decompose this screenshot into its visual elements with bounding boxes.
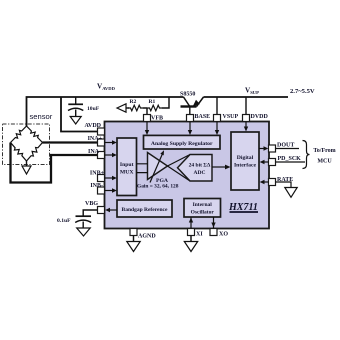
sensor dashed box <box>3 124 50 165</box>
svg-text:INB+: INB+ <box>90 171 105 177</box>
svg-text:BASE: BASE <box>195 114 211 120</box>
svg-text:VSUP: VSUP <box>223 114 239 120</box>
wire VFB network row <box>162 97 169 108</box>
svg-text:2.7~5.5V: 2.7~5.5V <box>290 88 315 95</box>
op-amp PGA <box>148 153 168 180</box>
brace to MCU <box>303 141 310 169</box>
pin INB+ <box>98 175 105 182</box>
wire bridge to INA+ <box>43 141 98 143</box>
svg-text:Bandgap Reference: Bandgap Reference <box>122 207 168 213</box>
pin AVDD <box>98 128 105 135</box>
svg-text:S8550: S8550 <box>180 92 195 98</box>
wire VAVDD rail <box>27 97 184 126</box>
svg-text:10uF: 10uF <box>87 106 100 112</box>
wire VSUP rail <box>204 96 289 98</box>
svg-text:VBG: VBG <box>85 201 98 207</box>
capacitor C1 10uF <box>68 97 83 117</box>
box input MUX <box>117 138 137 196</box>
svg-text:XI: XI <box>196 232 203 238</box>
wire AVDD branch <box>61 97 98 132</box>
svg-text:Input: Input <box>120 162 134 168</box>
svg-text:PD_SCK: PD_SCK <box>278 156 302 162</box>
wire VSUP to DVDD pin <box>245 97 247 115</box>
wire PGA to ADC bowtie <box>168 155 191 182</box>
wire VSUP to VSUP pin <box>216 97 218 115</box>
bridge resistor bottom-left <box>11 143 27 162</box>
svg-text:To/From: To/From <box>313 148 335 154</box>
ADC block 24-bit sigma-delta <box>178 155 213 182</box>
svg-text:sensor: sensor <box>30 112 53 121</box>
svg-text:Interface: Interface <box>234 163 257 169</box>
svg-text:Internal: Internal <box>193 202 213 208</box>
pin INB- <box>98 187 105 194</box>
svg-text:DOUT: DOUT <box>277 143 294 149</box>
pin VFB <box>144 115 151 122</box>
chip body U1 HX711 <box>105 122 270 229</box>
pin RATE <box>269 179 276 186</box>
wire bridge to INA- <box>11 143 98 183</box>
resistor R1 <box>147 105 162 111</box>
svg-text:Digital: Digital <box>237 155 254 161</box>
svg-text:MCU: MCU <box>317 159 332 165</box>
svg-text:Analog Supply Regulator: Analog Supply Regulator <box>151 141 213 147</box>
pin PD_SCK <box>269 159 276 166</box>
svg-text:XO: XO <box>219 232 228 238</box>
pin VSUP <box>214 115 221 122</box>
ground under C1 <box>70 117 81 125</box>
ground under RATE <box>285 188 297 198</box>
bridge resistor right-bottom <box>27 143 43 162</box>
pin INA+ <box>98 139 105 146</box>
ground under bridge <box>22 161 31 174</box>
svg-text:Oscillator: Oscillator <box>191 210 215 216</box>
box digital interface <box>231 132 259 190</box>
ground arrow AGND left <box>126 107 129 109</box>
box internal oscillator <box>184 199 221 218</box>
box analog supply regulator <box>144 135 221 149</box>
pin BASE <box>187 115 194 122</box>
svg-text:INA-: INA- <box>88 149 101 155</box>
bridge resistor top-right <box>27 126 43 143</box>
svg-text:DVDD: DVDD <box>251 114 269 120</box>
wire ADC to digital interface <box>212 166 226 168</box>
bridge resistor left-top <box>11 126 27 143</box>
svg-text:R1: R1 <box>149 99 156 105</box>
svg-text:INA+: INA+ <box>88 136 103 142</box>
svg-text:24 bit ΣΔ: 24 bit ΣΔ <box>189 163 211 169</box>
transistor Q1 S8550 <box>181 97 204 115</box>
wire VBG to C2 <box>83 210 97 216</box>
svg-text:AVDD: AVDD <box>84 123 101 129</box>
resistor R2 <box>128 105 143 111</box>
pin DOUT <box>269 145 276 152</box>
svg-text:Gain = 32, 64, 128: Gain = 32, 64, 128 <box>137 184 179 190</box>
svg-text:AGND: AGND <box>138 234 156 240</box>
svg-text:ADC: ADC <box>194 170 206 176</box>
PGA gain arrow <box>150 153 163 183</box>
wire R2-R1 junction to VFB pin <box>143 108 147 115</box>
pin XO <box>210 229 217 236</box>
wire MUX to PGA <box>137 164 149 173</box>
svg-text:INB-: INB- <box>90 183 103 189</box>
svg-text:0.1uF: 0.1uF <box>57 218 71 224</box>
pin VBG <box>98 207 105 214</box>
svg-text:R2: R2 <box>130 99 137 105</box>
pin DVDD <box>243 115 250 122</box>
svg-text:VFB: VFB <box>151 116 163 122</box>
svg-text:RATE: RATE <box>277 177 293 183</box>
box bandgap reference <box>117 200 172 217</box>
pin XI <box>188 229 195 236</box>
pin INA- <box>98 152 105 159</box>
ground under C2 <box>77 228 91 236</box>
svg-text:MUX: MUX <box>120 170 134 176</box>
capacitor C2 0.1uF <box>76 215 92 217</box>
pin AGND <box>130 229 137 236</box>
